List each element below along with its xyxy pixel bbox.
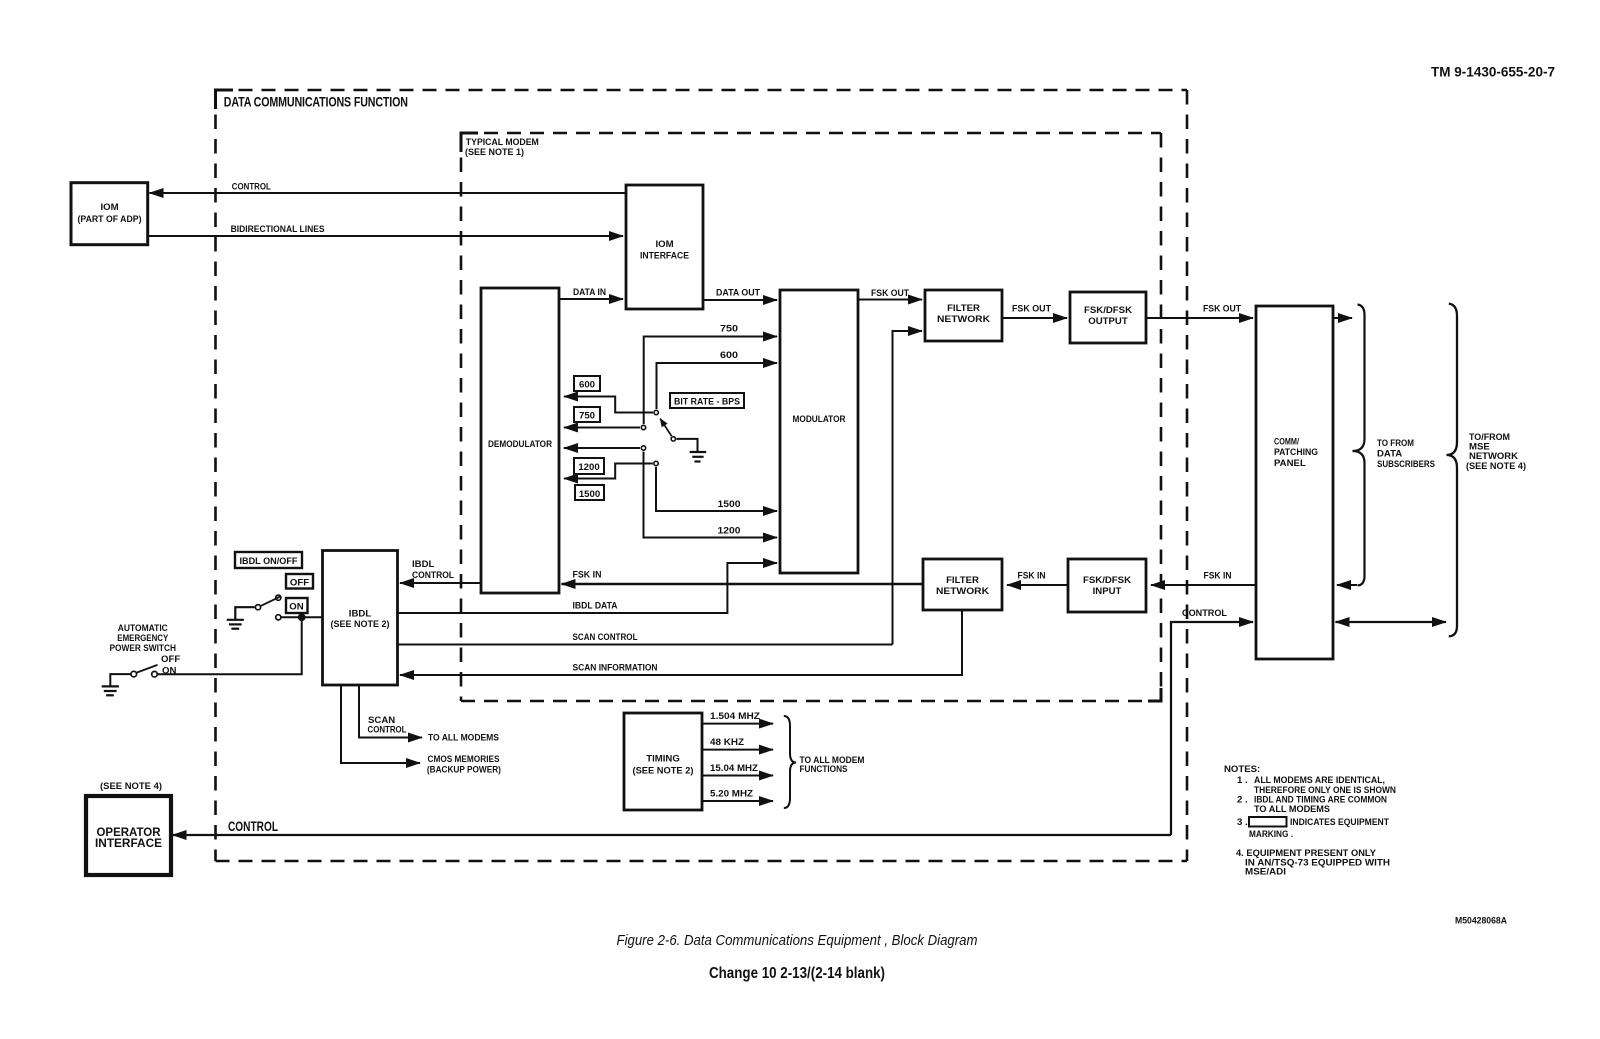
switch emergency blade <box>137 665 158 673</box>
svg-text:FUNCTIONS: FUNCTIONS <box>800 764 849 775</box>
svg-text:INPUT: INPUT <box>1093 586 1122 597</box>
svg-text:(PART OF ADP): (PART OF ADP) <box>78 214 142 225</box>
svg-text:COMM/: COMM/ <box>1274 437 1299 448</box>
wire 1500 to modulator <box>656 467 777 511</box>
svg-text:750: 750 <box>720 324 738 335</box>
brace TO ALL MODEM FUNCTIONS <box>784 716 865 808</box>
label box 1200 <box>574 458 604 474</box>
svg-text:FSK/DFSK: FSK/DFSK <box>1083 575 1131 586</box>
label box 1500 <box>575 485 604 500</box>
wire 750 to demodulator <box>564 427 640 429</box>
dashed enclosure TYPICAL MODEM <box>461 133 1161 701</box>
svg-text:SCAN CONTROL: SCAN CONTROL <box>573 632 638 643</box>
wire DATA OUT <box>703 288 777 301</box>
brace TO FROM DATA SUBSCRIBERS <box>1353 305 1436 586</box>
svg-text:2 .: 2 . <box>1237 795 1248 806</box>
switch common contact <box>671 437 675 441</box>
svg-text:(SEE NOTE 2): (SEE NOTE 2) <box>331 619 390 630</box>
svg-text:TO FROM: TO FROM <box>1377 438 1414 449</box>
block FSK/DFSK OUTPUT <box>1070 292 1146 343</box>
wire 1500 to demodulator <box>564 464 653 479</box>
switch contact 600 <box>654 410 658 414</box>
svg-text:CONTROL: CONTROL <box>232 182 271 193</box>
block COMM PATCHING PANEL <box>1256 306 1333 659</box>
svg-text:INTERFACE: INTERFACE <box>640 251 690 262</box>
svg-text:PANEL: PANEL <box>1274 458 1306 469</box>
svg-text:FSK IN: FSK IN <box>1204 571 1232 582</box>
wire IBDL DATA to modulator <box>398 563 778 613</box>
wire emergency switch to ground <box>110 674 130 686</box>
svg-text:IOM: IOM <box>655 239 673 250</box>
wire CONTROL trunk to panel <box>1171 608 1253 835</box>
wire IBDL to TO ALL MODEMS <box>359 685 500 744</box>
svg-text:DATA OUT: DATA OUT <box>716 288 760 299</box>
svg-text:SUBSCRIBERS: SUBSCRIBERS <box>1377 459 1435 470</box>
switch emergency right contact <box>152 671 158 677</box>
svg-text:Change 10 2-13/(2-14 blank): Change 10 2-13/(2-14 blank) <box>709 965 885 982</box>
svg-text:ON: ON <box>162 666 176 677</box>
wire IBDL to CMOS MEMORIES <box>341 685 501 775</box>
ground bit rate switch <box>690 452 707 462</box>
label box 750 <box>574 407 600 422</box>
svg-text:BIT RATE - BPS: BIT RATE - BPS <box>674 397 741 408</box>
label box ON <box>286 598 308 613</box>
svg-text:48 KHZ: 48 KHZ <box>710 737 744 748</box>
note 3 sample equipment marking box <box>1249 817 1287 827</box>
block DEMODULATOR <box>481 288 559 593</box>
block OPERATOR INTERFACE <box>86 796 171 875</box>
svg-text:FSK IN: FSK IN <box>573 570 602 581</box>
svg-text:1200: 1200 <box>578 462 599 473</box>
ground emergency switch <box>102 686 119 695</box>
svg-text:SCAN INFORMATION: SCAN INFORMATION <box>573 663 658 674</box>
svg-text:(SEE NOTE 4): (SEE NOTE 4) <box>100 781 162 792</box>
wire FSK IN brace to panel <box>1337 584 1357 586</box>
svg-text:600: 600 <box>720 350 738 361</box>
svg-text:IBDL ON/OFF: IBDL ON/OFF <box>240 556 298 567</box>
dashed enclosure DATA COMMUNICATIONS FUNCTION <box>216 90 1188 861</box>
wire DATA IN <box>559 287 623 299</box>
block IOM INTERFACE <box>626 185 703 309</box>
svg-text:IBDL DATA: IBDL DATA <box>573 601 618 612</box>
label box BIT RATE - BPS <box>670 393 744 408</box>
wire 600 to modulator <box>657 350 778 409</box>
svg-text:FSK IN: FSK IN <box>1018 571 1046 582</box>
svg-text:MSE/ADI: MSE/ADI <box>1245 867 1286 878</box>
svg-text:CONTROL: CONTROL <box>368 725 407 736</box>
svg-text:ON: ON <box>289 602 303 613</box>
svg-text:OUTPUT: OUTPUT <box>1088 316 1128 327</box>
wire panel to subscribers brace top <box>1333 317 1352 319</box>
label box IBDL ON/OFF <box>235 552 302 568</box>
switch emergency left contact <box>131 671 137 677</box>
svg-text:TO ALL MODEMS: TO ALL MODEMS <box>428 733 500 744</box>
wire timing 5.20 MHZ <box>702 789 773 802</box>
switch blade bit rate selector <box>660 419 671 436</box>
svg-text:TM 9-1430-655-20-7: TM 9-1430-655-20-7 <box>1431 64 1555 80</box>
switch IBDL on/off OFF contact <box>276 595 281 600</box>
wire BIDIRECTIONAL LINES <box>148 224 623 236</box>
svg-text:DATA IN: DATA IN <box>573 287 606 298</box>
svg-text:PATCHING: PATCHING <box>1274 447 1318 458</box>
wire CONTROL to IOM <box>150 182 627 194</box>
wire SCAN CONTROL IBDL to filter trunk <box>398 632 893 645</box>
svg-text:M50428068A: M50428068A <box>1455 916 1507 927</box>
svg-text:FSK OUT: FSK OUT <box>871 288 909 299</box>
wire timing 48 KHZ <box>702 737 773 750</box>
wire FSK IN fsk/dfsk input to filter network <box>1007 571 1068 586</box>
svg-text:IBDL: IBDL <box>412 559 435 570</box>
wire 600 to demodulator <box>564 397 653 413</box>
junction dot IBDL power <box>298 613 306 621</box>
wire FSK OUT filter to fsk/dfsk output <box>1002 304 1067 319</box>
svg-text:(SEE NOTE 1): (SEE NOTE 1) <box>465 147 524 158</box>
switch contact 1200 <box>641 446 645 450</box>
svg-text:NETWORK: NETWORK <box>937 314 990 325</box>
svg-text:Figure 2-6. Data Communicatio: Figure 2-6. Data Communications Equipmen… <box>617 932 978 949</box>
wire IBDL CONTROL demodulator to IBDL <box>400 559 481 583</box>
notes text <box>1224 764 1396 878</box>
svg-text:CONTROL: CONTROL <box>228 818 278 834</box>
svg-text:POWER SWITCH: POWER SWITCH <box>110 643 177 654</box>
svg-text:FILTER: FILTER <box>947 303 980 314</box>
svg-text:BIDIRECTIONAL LINES: BIDIRECTIONAL LINES <box>231 224 326 235</box>
switch contact 750 <box>641 425 645 429</box>
label AUTOMATIC EMERGENCY POWER SWITCH <box>110 623 181 677</box>
svg-text:FILTER: FILTER <box>946 575 979 586</box>
block MODULATOR <box>780 290 858 573</box>
svg-text:CONTROL: CONTROL <box>1182 608 1227 619</box>
label box OFF <box>286 574 313 589</box>
svg-text:(SEE NOTE 4): (SEE NOTE 4) <box>1466 461 1526 472</box>
block FILTER NETWORK top <box>925 290 1002 341</box>
wire FSK OUT fsk/dfsk output to comm patching panel <box>1146 304 1253 319</box>
wire CONTROL to operator interface <box>173 818 1172 835</box>
wire FSK IN panel to fsk/dfsk input <box>1151 571 1256 586</box>
svg-text:INTERFACE: INTERFACE <box>95 836 162 850</box>
switch IBDL on/off ON contact <box>276 615 281 620</box>
block FSK/DFSK INPUT <box>1068 559 1146 612</box>
svg-text:FSK OUT: FSK OUT <box>1203 304 1241 315</box>
svg-text:1500: 1500 <box>718 499 741 510</box>
svg-text:FSK OUT: FSK OUT <box>1012 304 1051 315</box>
wire ON contact to IBDL <box>282 616 323 618</box>
wire scan control trunk to filter network <box>893 331 923 645</box>
svg-text:IOM: IOM <box>100 202 118 213</box>
svg-text:(BACKUP POWER): (BACKUP POWER) <box>427 764 501 775</box>
svg-text:INDICATES EQUIPMENT: INDICATES EQUIPMENT <box>1290 817 1389 828</box>
svg-text:NETWORK: NETWORK <box>936 586 989 597</box>
svg-text:CONTROL: CONTROL <box>412 570 454 581</box>
wire 1200 to modulator <box>644 452 778 538</box>
svg-text:(SEE NOTE 2): (SEE NOTE 2) <box>633 766 694 777</box>
label box 600 <box>574 376 600 391</box>
wire switch common to ground <box>677 439 698 452</box>
svg-text:MODULATOR: MODULATOR <box>793 414 846 425</box>
svg-text:750: 750 <box>579 411 595 422</box>
svg-text:TIMING: TIMING <box>646 754 680 765</box>
ground IBDL switch <box>227 607 255 629</box>
block FILTER NETWORK bottom <box>923 559 1002 610</box>
switch contact 1500 <box>654 461 658 465</box>
block IBDL (SEE NOTE 2) <box>323 551 398 686</box>
svg-text:OFF: OFF <box>161 654 180 665</box>
block TIMING (SEE NOTE 2) <box>624 713 702 810</box>
svg-text:DEMODULATOR: DEMODULATOR <box>488 439 552 450</box>
svg-text:TO ALL MODEMS: TO ALL MODEMS <box>1254 804 1331 815</box>
wire junction down to emergency switch <box>158 617 302 674</box>
svg-text:3 .: 3 . <box>1237 817 1248 828</box>
wire FSK IN filter network to demodulator <box>562 570 924 585</box>
switch IBDL blade <box>261 596 281 606</box>
svg-text:FSK/DFSK: FSK/DFSK <box>1084 305 1132 316</box>
wire timing 1.504 MHZ <box>702 711 773 724</box>
svg-text:MARKING .: MARKING . <box>1249 829 1293 840</box>
wire panel to MSE brace double arrow <box>1336 621 1447 623</box>
svg-text:DATA: DATA <box>1377 449 1402 460</box>
svg-text:1500: 1500 <box>579 489 600 500</box>
svg-text:5.20 MHZ: 5.20 MHZ <box>710 789 753 800</box>
svg-text:1200: 1200 <box>718 526 741 537</box>
svg-text:NOTES:: NOTES: <box>1224 764 1260 775</box>
svg-text:IBDL: IBDL <box>349 609 372 620</box>
svg-text:DATA COMMUNICATIONS FUNCTION: DATA COMMUNICATIONS FUNCTION <box>224 95 408 110</box>
wire 1200 to demodulator <box>564 447 640 449</box>
block IOM (PART OF ADP) <box>71 183 148 245</box>
wire timing 15.04 MHZ <box>702 763 773 776</box>
svg-text:1 .: 1 . <box>1237 775 1248 786</box>
switch IBDL on/off common contact <box>255 605 260 610</box>
svg-text:600: 600 <box>579 380 595 391</box>
svg-text:OFF: OFF <box>290 578 309 589</box>
wire SCAN INFORMATION filter to IBDL <box>400 610 962 675</box>
svg-text:15.04 MHZ: 15.04 MHZ <box>710 763 758 774</box>
brace TO/FROM MSE NETWORK <box>1447 304 1527 637</box>
wire 750 to modulator <box>644 324 777 425</box>
svg-text:1.504 MHZ: 1.504 MHZ <box>710 711 760 722</box>
wire FSK OUT modulator to filter network <box>858 288 922 300</box>
